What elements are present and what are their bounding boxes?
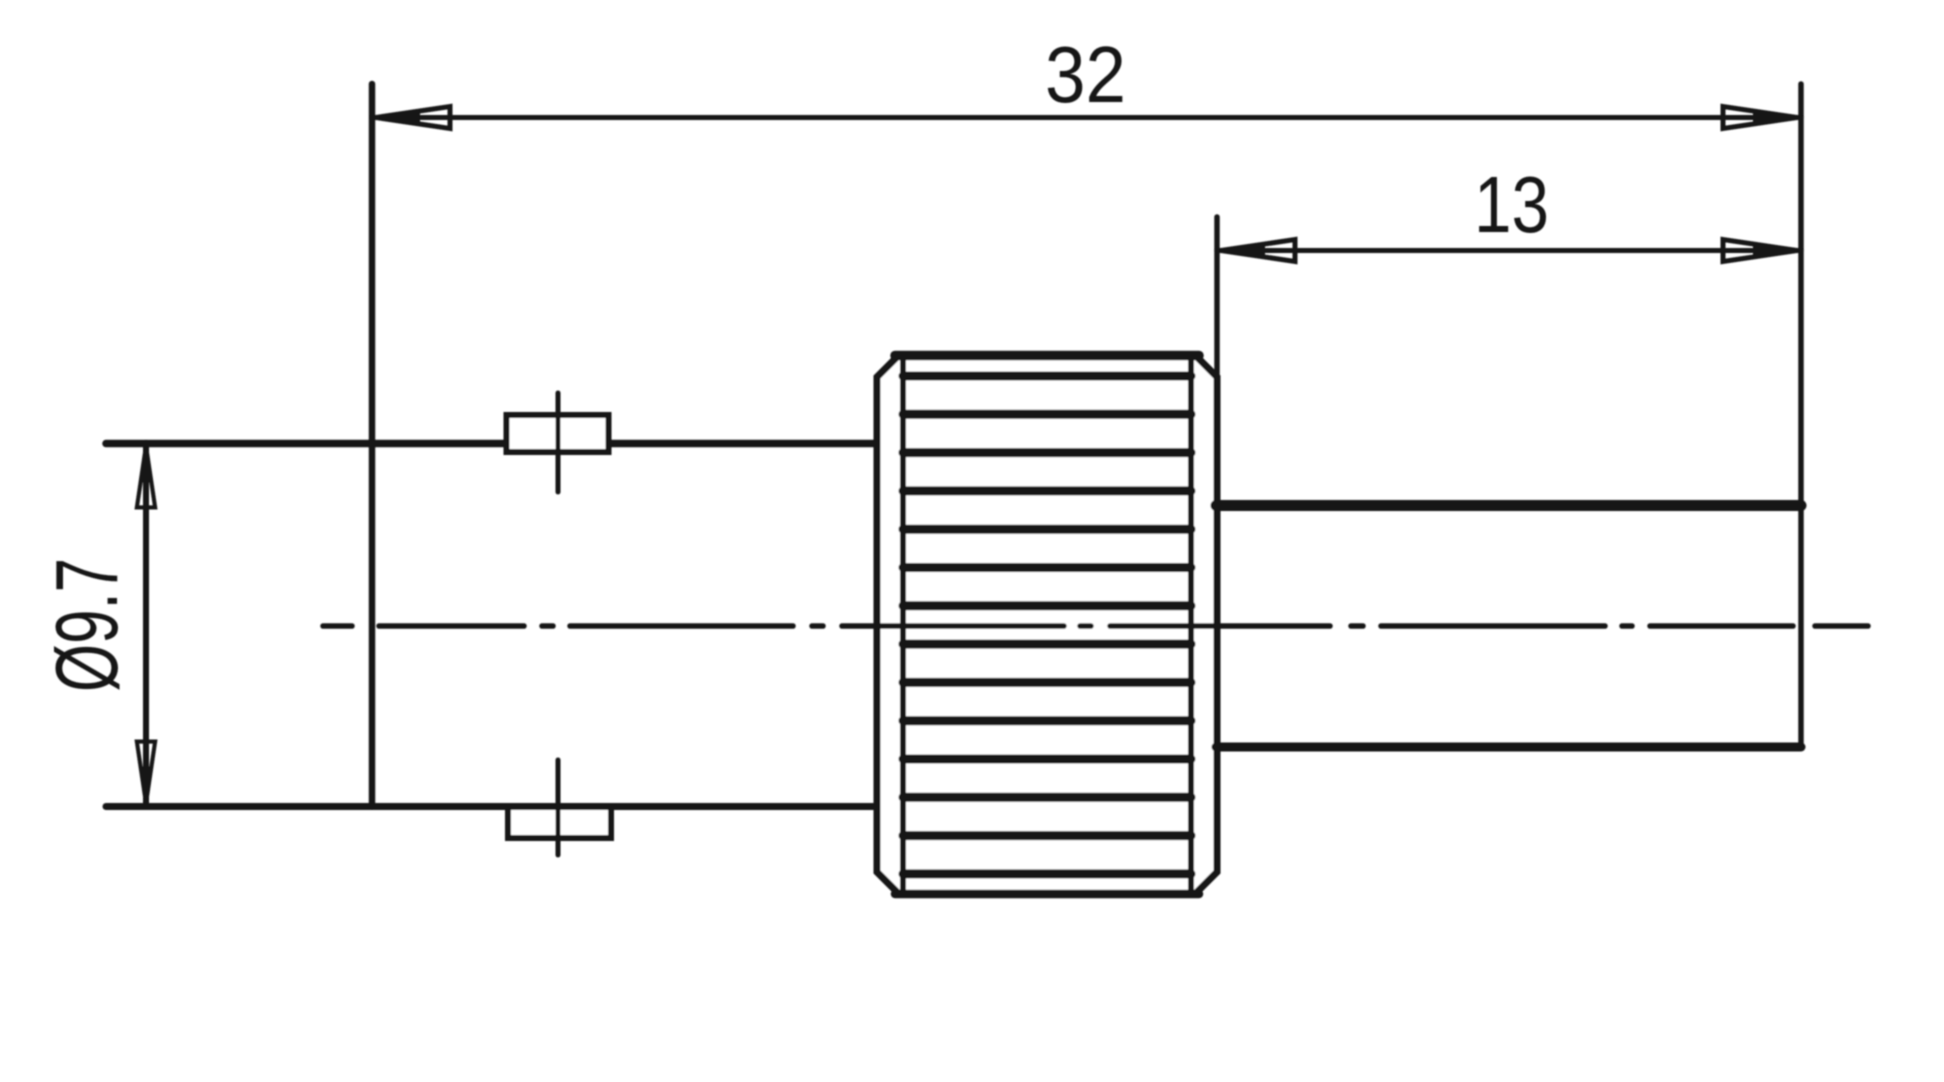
- svg-text:32: 32: [1045, 30, 1126, 119]
- centre line (dash-dot axis): [323, 623, 1868, 629]
- connector body: right face / extension line of dimensions 32 and 13: [1798, 84, 1804, 747]
- dimension line Ø9.7 (vertical): [143, 443, 149, 806]
- dimension line 13: [1217, 248, 1801, 253]
- connector body: left barrel bottom edge with Ø9.7 extension line: [106, 803, 881, 810]
- connector body: right barrel bottom edge: [1216, 743, 1801, 752]
- arrowhead bottom of dimension Ø9.7: [137, 742, 155, 803]
- bayonet stud bottom (rectangle): [508, 807, 611, 838]
- svg-text:Ø9.7: Ø9.7: [37, 558, 136, 692]
- knurled nut right inner edge: [1188, 357, 1194, 892]
- knurled coupling nut outline (chamfered): [877, 355, 1217, 894]
- knurled nut left inner edge: [900, 357, 906, 892]
- connector body: left face / extension line of dimension 32: [369, 84, 376, 806]
- dimension line 32: [372, 115, 1801, 120]
- bayonet stud bottom centre mark: [556, 760, 561, 855]
- arrowhead left of dimension 13: [1221, 240, 1295, 262]
- arrowhead right of dimension 32: [1723, 107, 1797, 129]
- arrowhead top of dimension Ø9.7: [137, 446, 155, 507]
- knurling hatch lines: [903, 376, 1191, 874]
- knurled nut bottom edge: [895, 890, 1199, 899]
- connector body: right barrel top edge: [1216, 500, 1801, 511]
- extension line of dimension 13 at knurl face: [1214, 217, 1220, 374]
- connector body: left barrel top edge with Ø9.7 extension line: [106, 440, 881, 448]
- arrowhead left of dimension 32: [376, 107, 450, 129]
- bayonet stud top (rectangle): [507, 415, 609, 452]
- arrowhead right of dimension 13: [1723, 240, 1797, 262]
- svg-text:13: 13: [1474, 160, 1549, 249]
- knurled nut top edge: [895, 351, 1199, 361]
- bayonet stud top centre mark: [556, 393, 561, 492]
